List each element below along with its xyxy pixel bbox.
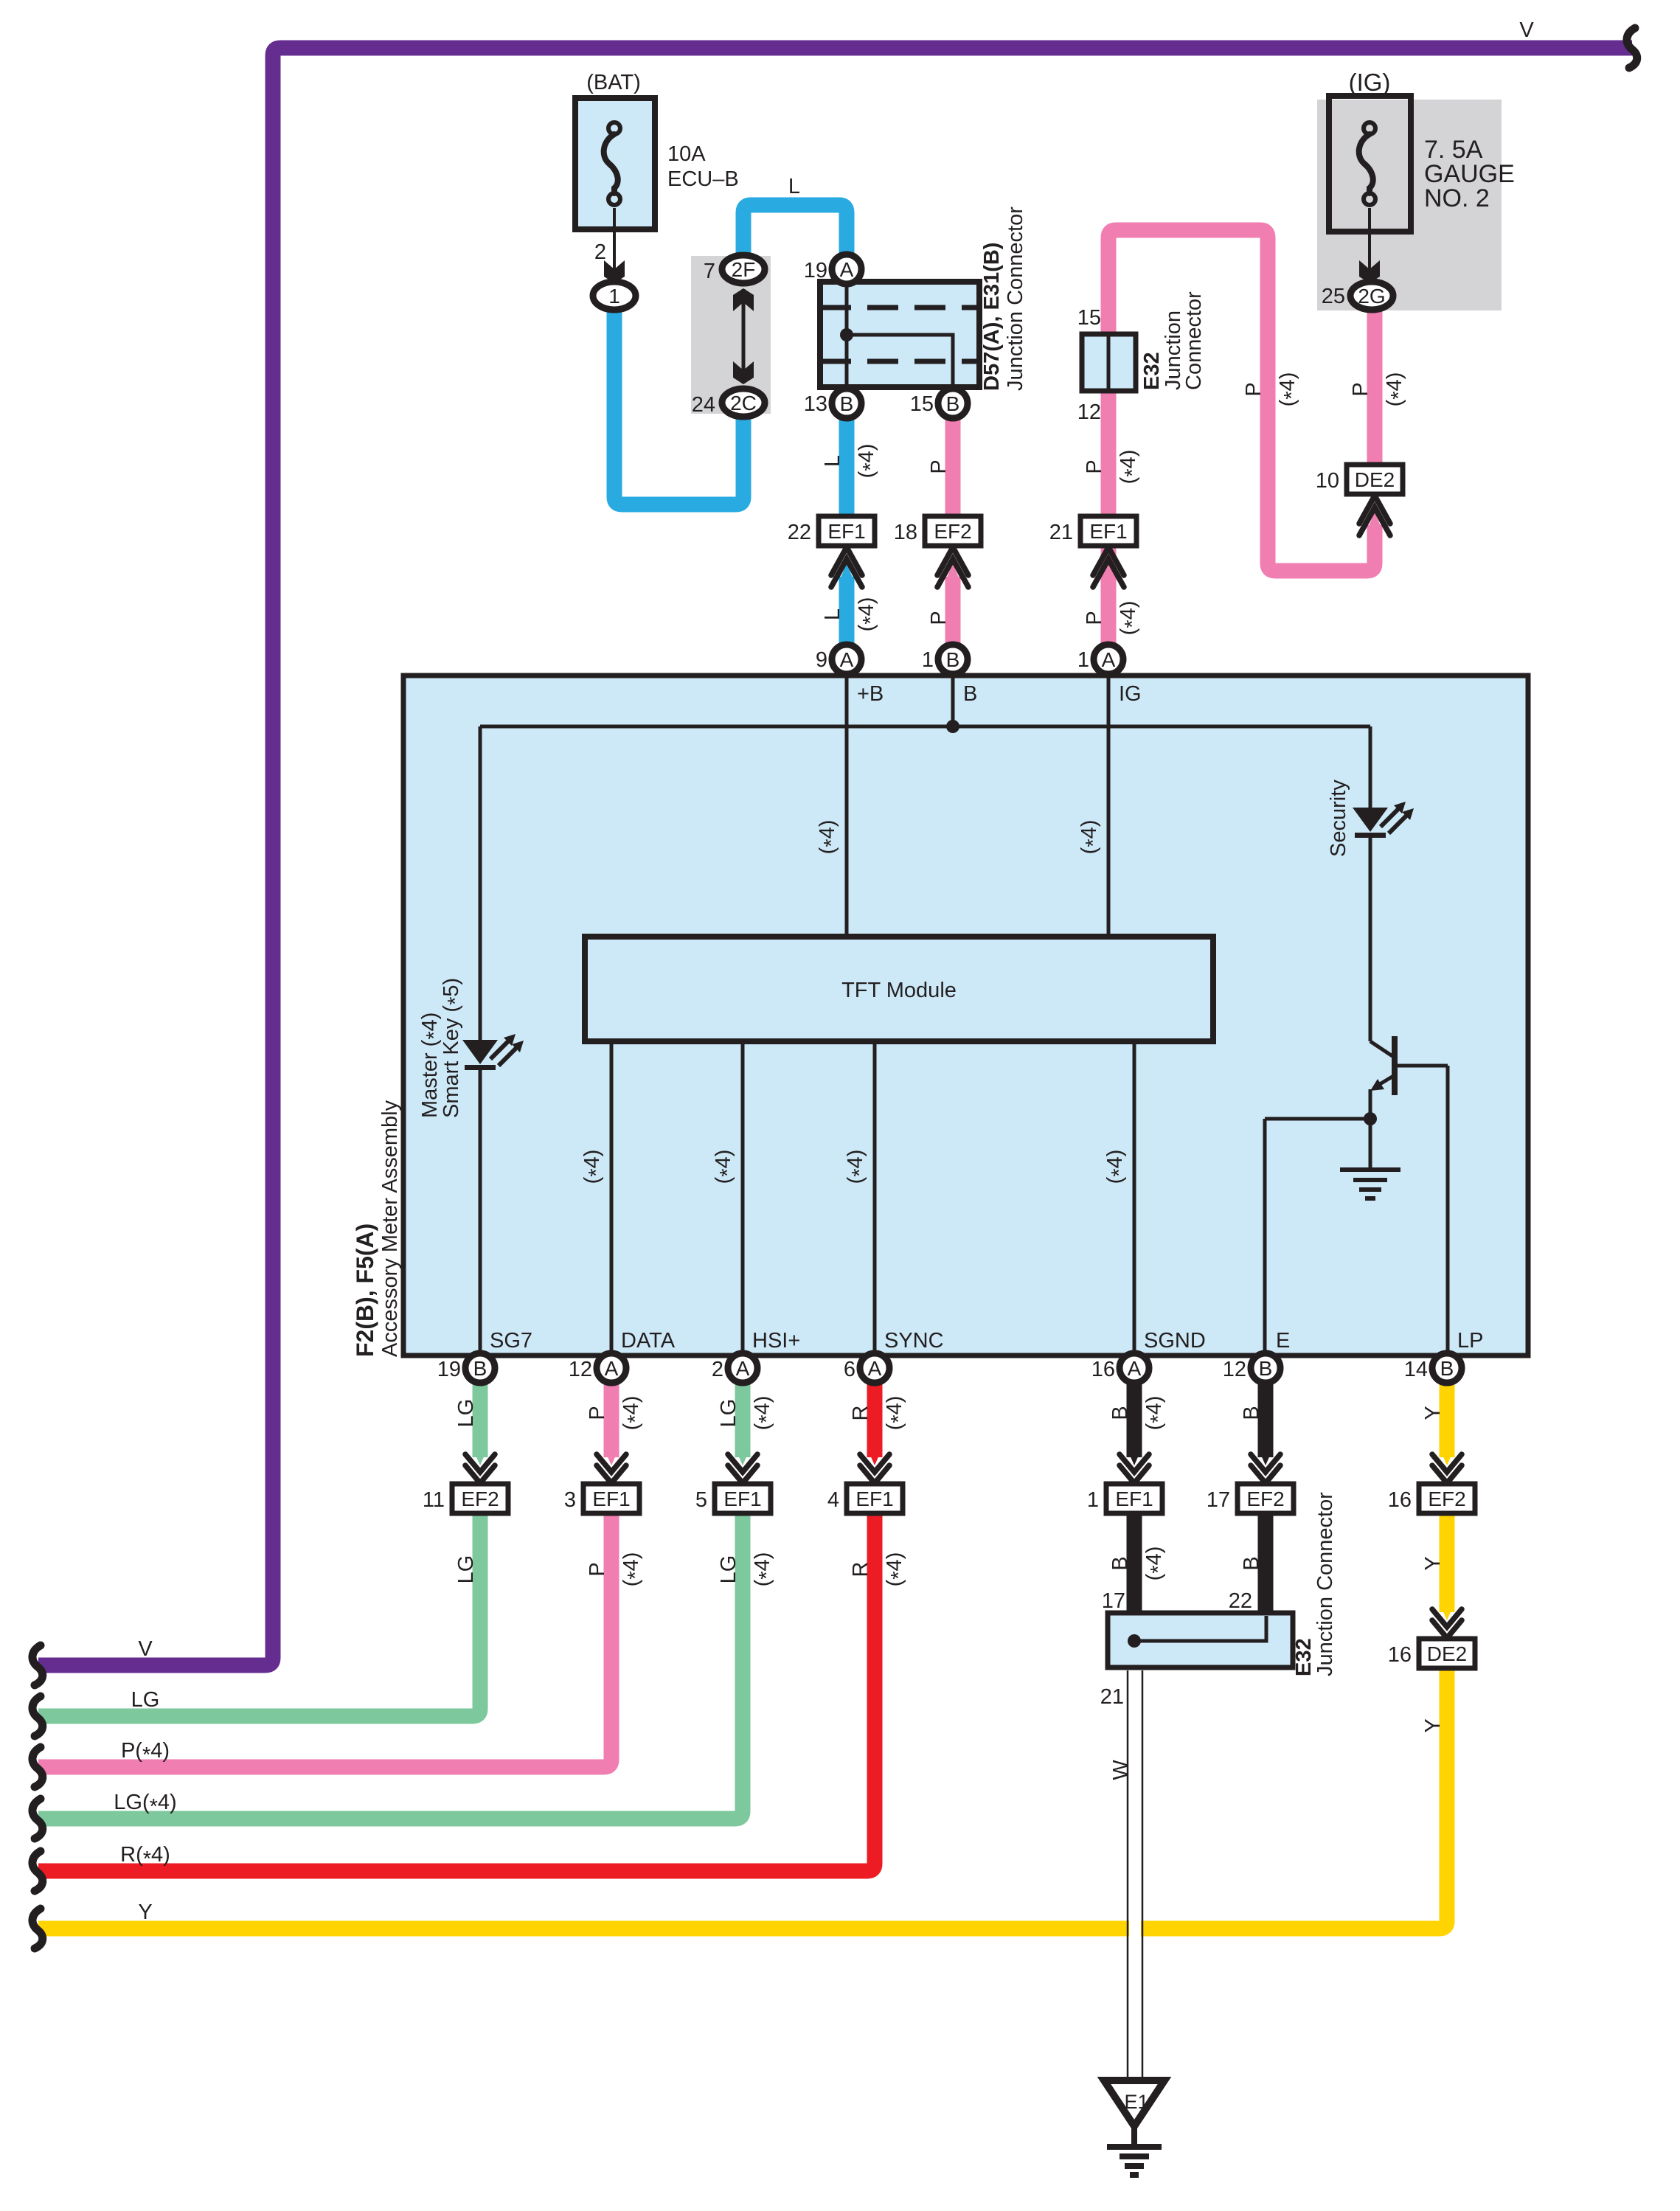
svg-text:21: 21	[1049, 521, 1073, 544]
svg-text:Connector: Connector	[1182, 291, 1206, 390]
svg-text:Y: Y	[1421, 1556, 1445, 1570]
svg-text:P: P	[927, 611, 951, 625]
svg-text:5: 5	[695, 1488, 707, 1512]
svg-text:B: B	[1108, 1556, 1132, 1570]
svg-text:SYNC: SYNC	[884, 1329, 944, 1353]
svg-text:4: 4	[827, 1488, 839, 1512]
svg-text:B: B	[473, 1357, 487, 1380]
svg-text:21: 21	[1100, 1685, 1124, 1709]
svg-text:B: B	[1440, 1357, 1454, 1380]
svg-text:P: P	[1349, 382, 1372, 396]
svg-text:(*4): (*4)	[1117, 601, 1145, 636]
svg-text:E1: E1	[1124, 2091, 1148, 2113]
svg-text:(*4): (*4)	[619, 1552, 648, 1587]
svg-text:16: 16	[1388, 1643, 1412, 1667]
svg-text:(BAT): (BAT)	[586, 71, 641, 94]
svg-text:DATA: DATA	[621, 1329, 676, 1353]
svg-text:EF1: EF1	[1115, 1488, 1153, 1510]
svg-text:14: 14	[1404, 1358, 1428, 1381]
svg-text:17: 17	[1102, 1589, 1125, 1613]
svg-text:W: W	[1109, 1760, 1133, 1780]
svg-text:EF1: EF1	[855, 1488, 893, 1510]
svg-text:IG: IG	[1119, 682, 1142, 706]
svg-text:R: R	[849, 1562, 872, 1577]
svg-text:Y: Y	[1421, 1718, 1445, 1732]
svg-text:E: E	[1276, 1329, 1290, 1353]
svg-text:HSI+: HSI+	[752, 1329, 800, 1353]
svg-text:2G: 2G	[1358, 285, 1385, 308]
svg-text:Y: Y	[1421, 1406, 1445, 1420]
svg-text:(*4): (*4)	[1276, 372, 1304, 407]
svg-text:B: B	[1240, 1556, 1263, 1570]
svg-text:2F: 2F	[732, 258, 756, 281]
svg-text:EF1: EF1	[723, 1488, 761, 1510]
svg-text:P: P	[586, 1562, 609, 1576]
svg-text:(*4): (*4)	[855, 597, 883, 632]
svg-text:ECU–B: ECU–B	[667, 167, 739, 191]
svg-text:(*4): (*4)	[1383, 372, 1411, 407]
svg-text:P: P	[1083, 611, 1106, 625]
svg-text:V: V	[138, 1637, 153, 1661]
svg-text:B: B	[840, 392, 854, 415]
svg-text:3: 3	[564, 1488, 576, 1512]
svg-text:Junction Connector: Junction Connector	[1313, 1492, 1337, 1676]
svg-text:EF2: EF2	[934, 520, 971, 543]
svg-text:P: P	[1083, 459, 1106, 473]
svg-text:P: P	[586, 1406, 609, 1420]
svg-text:NO. 2: NO. 2	[1424, 184, 1490, 212]
svg-text:B: B	[1108, 1406, 1132, 1420]
svg-text:LG: LG	[717, 1555, 740, 1584]
svg-text:22: 22	[1229, 1589, 1252, 1613]
svg-text:DE2: DE2	[1427, 1642, 1467, 1665]
svg-text:A: A	[1102, 648, 1116, 671]
svg-text:B: B	[946, 648, 960, 671]
svg-text:1: 1	[922, 648, 934, 672]
svg-text:12: 12	[1223, 1358, 1246, 1381]
svg-text:DE2: DE2	[1355, 468, 1395, 491]
svg-text:(*4): (*4)	[883, 1396, 911, 1431]
svg-text:12: 12	[569, 1358, 592, 1381]
svg-text:EF1: EF1	[592, 1488, 630, 1510]
svg-text:R: R	[849, 1406, 872, 1421]
svg-text:LG: LG	[717, 1399, 740, 1428]
svg-text:18: 18	[894, 521, 917, 544]
svg-text:1: 1	[1087, 1488, 1099, 1512]
svg-text:LP: LP	[1457, 1329, 1483, 1353]
svg-text:SG7: SG7	[490, 1329, 532, 1353]
svg-text:TFT Module: TFT Module	[841, 979, 957, 1002]
svg-text:E32: E32	[1292, 1638, 1316, 1676]
svg-text:1: 1	[1077, 648, 1089, 672]
svg-text:(*4): (*4)	[1142, 1396, 1170, 1431]
svg-text:(*4): (*4)	[883, 1552, 911, 1587]
svg-text:11: 11	[423, 1488, 445, 1512]
svg-text:A: A	[868, 1357, 882, 1380]
svg-text:19: 19	[437, 1358, 461, 1381]
svg-text:15: 15	[1077, 306, 1101, 330]
svg-text:P: P	[1242, 382, 1266, 396]
svg-text:B: B	[963, 682, 977, 706]
svg-text:13: 13	[804, 392, 827, 416]
svg-text:EF1: EF1	[1089, 520, 1127, 543]
svg-text:LG: LG	[131, 1688, 160, 1712]
svg-text:F2(B), F5(A): F2(B), F5(A)	[352, 1223, 378, 1357]
svg-text:V: V	[1519, 18, 1534, 42]
svg-text:EF2: EF2	[1246, 1488, 1284, 1510]
svg-text:A: A	[1128, 1357, 1142, 1380]
svg-text:D57(A), E31(B): D57(A), E31(B)	[980, 243, 1004, 391]
svg-text:A: A	[736, 1357, 750, 1380]
svg-text:(*4): (*4)	[751, 1396, 779, 1431]
svg-text:17: 17	[1207, 1488, 1230, 1512]
svg-text:19: 19	[804, 259, 827, 282]
svg-text:(*4): (*4)	[1117, 450, 1145, 485]
svg-text:B: B	[1259, 1357, 1273, 1380]
svg-text:1: 1	[608, 285, 620, 308]
svg-text:EF2: EF2	[461, 1488, 499, 1510]
svg-text:LG: LG	[454, 1555, 478, 1584]
svg-text:L: L	[821, 455, 844, 467]
svg-text:10A: 10A	[667, 142, 706, 166]
svg-text:16: 16	[1388, 1488, 1412, 1512]
svg-text:(*4): (*4)	[751, 1552, 779, 1587]
svg-text:Accessory Meter Assembly: Accessory Meter Assembly	[378, 1100, 402, 1357]
svg-text:2C: 2C	[730, 392, 757, 414]
svg-text:E32: E32	[1140, 352, 1164, 390]
svg-text:16: 16	[1091, 1358, 1115, 1381]
svg-text:9: 9	[816, 648, 827, 672]
svg-text:Security: Security	[1327, 780, 1350, 857]
svg-text:(*4): (*4)	[855, 444, 883, 479]
svg-text:A: A	[605, 1357, 619, 1380]
svg-text:(IG): (IG)	[1349, 69, 1391, 96]
svg-text:15: 15	[910, 392, 934, 416]
svg-text:LG: LG	[454, 1399, 478, 1428]
svg-text:Y: Y	[138, 1901, 152, 1924]
svg-text:SGND: SGND	[1144, 1329, 1206, 1353]
svg-text:P: P	[927, 459, 951, 473]
svg-text:B: B	[1240, 1406, 1263, 1420]
svg-text:A: A	[840, 648, 854, 671]
svg-text:22: 22	[788, 521, 811, 544]
svg-text:(*4): (*4)	[1142, 1547, 1170, 1581]
svg-text:2: 2	[712, 1358, 723, 1381]
svg-text:A: A	[840, 258, 854, 281]
svg-text:L: L	[788, 175, 800, 198]
svg-text:12: 12	[1077, 400, 1101, 424]
svg-text:6: 6	[844, 1358, 855, 1381]
svg-text:+B: +B	[857, 682, 884, 706]
svg-text:L: L	[821, 608, 844, 620]
svg-text:B: B	[946, 392, 960, 415]
svg-text:24: 24	[692, 393, 715, 417]
svg-text:2: 2	[594, 240, 606, 264]
svg-text:10: 10	[1316, 469, 1339, 493]
svg-text:EF1: EF1	[827, 520, 865, 543]
svg-text:Junction Connector: Junction Connector	[1004, 206, 1027, 391]
svg-text:7: 7	[704, 260, 715, 283]
svg-text:EF2: EF2	[1428, 1488, 1465, 1510]
svg-text:25: 25	[1322, 285, 1345, 308]
svg-text:(*4): (*4)	[619, 1396, 648, 1431]
